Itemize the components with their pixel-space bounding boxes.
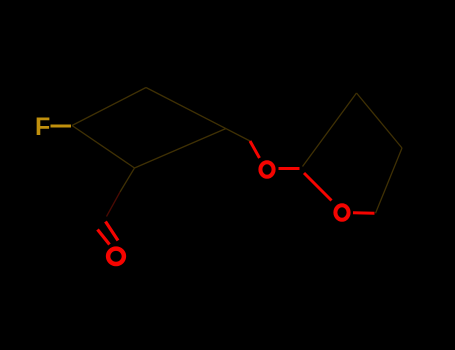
bond O1-CH acetal red (279, 167, 300, 170)
wire THP bond I C4'-C6' (376, 148, 403, 213)
wire ring bond C C1-C6 (72, 126, 135, 169)
wire bond E C6-CHO lower half dark red (107, 192, 121, 217)
bond CH2-O1 red (250, 141, 260, 158)
aldehyde O glyph (108, 249, 124, 264)
wire ring bond B C2-CH2 (146, 88, 250, 142)
wire bond E C6-CHO upper half (120, 168, 135, 192)
bond O2-C6' red (353, 211, 375, 214)
carbonyl C=O main line (106, 222, 119, 241)
ring O2 glyph (335, 205, 348, 219)
bond F-C1 (51, 125, 72, 128)
ether O1 glyph (260, 162, 273, 176)
wire ring bond D C6-C5 (135, 129, 227, 169)
carbonyl C=O second line (98, 230, 110, 245)
wire THP bond H C3'-C4' (357, 93, 403, 148)
bond CH-O2 red (304, 173, 332, 201)
wire THP bond G CH-C3' (303, 93, 357, 167)
wire ring bond A C1-C2 (72, 88, 146, 126)
svg-text:F: F (35, 113, 50, 141)
